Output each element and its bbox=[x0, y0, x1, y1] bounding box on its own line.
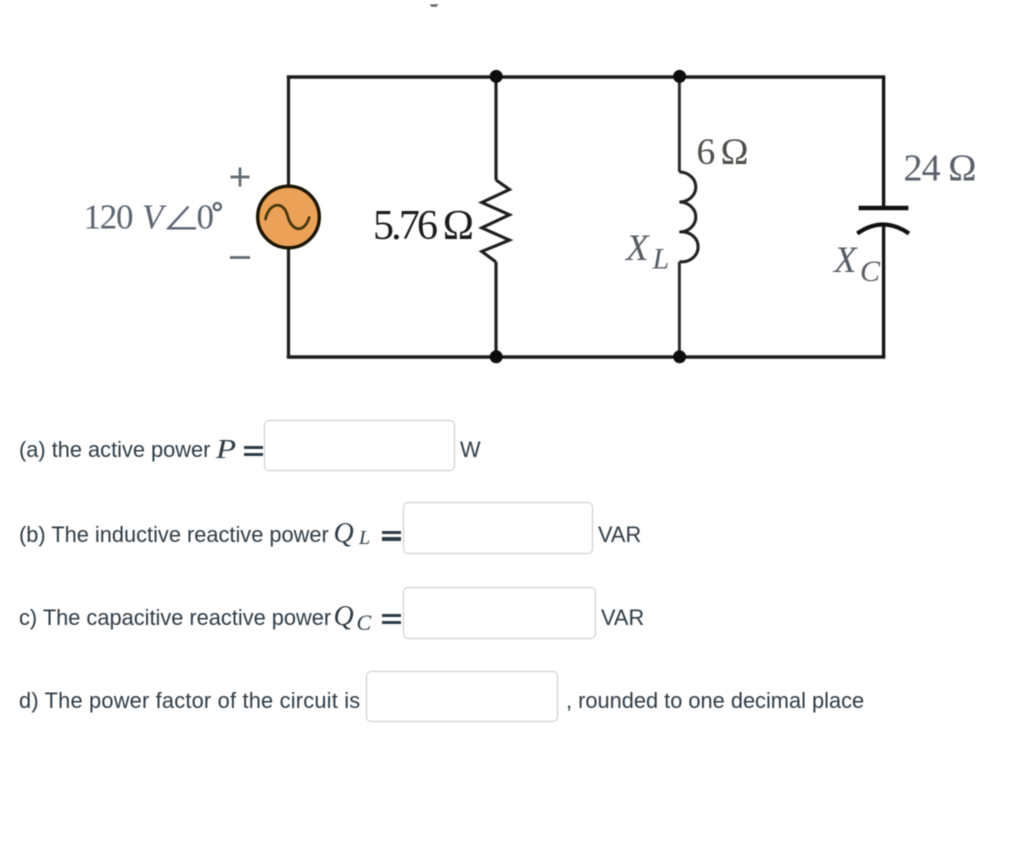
inductor L1 XL (3 arcs) bbox=[679, 172, 698, 262]
wire: capacitor branch upper bbox=[882, 77, 885, 206]
voltage source VS1 (ac source circle) bbox=[258, 186, 320, 248]
wire left: source branch lower bbox=[287, 247, 290, 357]
input box (d) bbox=[366, 671, 558, 723]
value label 24 ohm bbox=[904, 148, 977, 190]
svg-text:5.76 Ω: 5.76 Ω bbox=[373, 203, 474, 249]
node C junction dot (bottom, resistor branch) bbox=[490, 350, 503, 363]
capacitor C1 XC: curved plate bbox=[857, 225, 909, 234]
input box (c) bbox=[403, 587, 596, 639]
wire: capacitor branch lower bbox=[882, 225, 885, 358]
label XC bbox=[832, 240, 881, 288]
value label 6 ohm bbox=[697, 132, 749, 173]
node A junction dot (top, resistor branch) bbox=[490, 70, 503, 83]
wire bottom: node D to node C bbox=[287, 355, 886, 358]
svg-text:X: X bbox=[832, 240, 858, 281]
svg-text:0: 0 bbox=[197, 198, 215, 237]
resistor R1 5.76 ohm (zigzag) bbox=[482, 180, 510, 262]
wire: resistor branch upper bbox=[494, 77, 497, 180]
svg-text:L: L bbox=[652, 243, 670, 276]
question row (a) bbox=[19, 438, 210, 462]
wire: inductor branch lower bbox=[678, 262, 681, 357]
wire: resistor branch lower bbox=[494, 262, 497, 357]
input box (b) bbox=[403, 502, 593, 555]
label XL bbox=[624, 228, 669, 276]
value label 5.76 ohm bbox=[373, 203, 474, 249]
stray crop mark bbox=[430, 4, 439, 7]
polarity minus sign bbox=[230, 256, 250, 259]
svg-text:24 Ω: 24 Ω bbox=[904, 148, 977, 190]
label 120 V angle 0 deg (source value) bbox=[84, 198, 221, 237]
svg-text:C: C bbox=[860, 255, 881, 288]
wire top: node A to node B bbox=[287, 75, 886, 78]
polarity plus sign bbox=[231, 168, 250, 187]
capacitor C1 XC: flat plate bbox=[859, 206, 909, 210]
node D junction dot (bottom, inductor branch) bbox=[673, 350, 686, 363]
question row (d) bbox=[19, 689, 360, 713]
svg-text:6 Ω: 6 Ω bbox=[697, 132, 749, 173]
question row (c) bbox=[19, 606, 331, 630]
wire left: source branch upper bbox=[287, 77, 290, 187]
svg-text:X: X bbox=[624, 228, 650, 269]
svg-text:V: V bbox=[142, 198, 167, 237]
input box (a) bbox=[264, 420, 456, 471]
question row (b) bbox=[19, 523, 329, 547]
svg-text:120: 120 bbox=[84, 198, 134, 237]
wire: inductor branch upper bbox=[678, 77, 681, 172]
node B junction dot (top, inductor branch) bbox=[673, 70, 686, 83]
